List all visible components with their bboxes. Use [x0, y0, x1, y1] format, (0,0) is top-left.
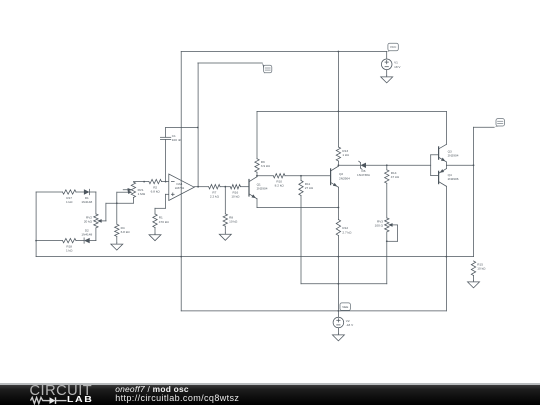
junction node Q2 collector [338, 164, 340, 166]
wire corner to RV2 top [95, 192, 97, 214]
wire RV1 wiper drop [116, 192, 118, 203]
potentiometer RV2 [84, 214, 106, 228]
wire D1 to corner [90, 191, 96, 193]
footer bar [0, 383, 540, 384]
wire junction to R8 [224, 187, 226, 214]
capacitor C1 [160, 134, 181, 142]
wire Q1 emitter drop [256, 199, 258, 208]
ground R15 [468, 280, 480, 288]
wire R14 top [386, 165, 388, 170]
potentiometer RV3 [375, 218, 397, 232]
svg-text:18 V: 18 V [394, 65, 401, 69]
svg-text:47 kΩ: 47 kΩ [391, 175, 400, 179]
resistor R11 [299, 181, 314, 196]
junction node C1 output [197, 127, 199, 129]
wire Q2 emitter drop [337, 187, 339, 219]
svg-text:1N4148: 1N4148 [81, 200, 92, 204]
wire push-pull base bar [430, 155, 432, 176]
wire node to D6 [338, 164, 360, 166]
svg-text:2.2 kΩ: 2.2 kΩ [210, 195, 220, 199]
wire V2 to ground [337, 328, 339, 334]
wire wiper node horizontal [106, 202, 133, 204]
wire op-amp supply vertical [180, 52, 182, 311]
junction node R14 top [386, 164, 388, 166]
junction node R8 tap [224, 186, 226, 188]
wire VCC flag stub [386, 52, 388, 60]
wire R11 down [300, 196, 302, 284]
svg-text:VCC: VCC [390, 45, 397, 49]
wire R14 to RV3 [386, 183, 388, 218]
svg-text:10 kΩ: 10 kΩ [231, 195, 240, 199]
svg-text:10 kΩ: 10 kΩ [229, 220, 238, 224]
wire RV2 bottom to corner [95, 228, 97, 241]
wire C1 bottom lead [165, 140, 167, 182]
resistor R8 [223, 214, 238, 226]
wire RV3 to loop [386, 232, 388, 241]
wire noninverting jog [155, 207, 166, 209]
wire Q4 collector down [445, 186, 447, 311]
wire op-amp output [194, 186, 208, 188]
node flag mid [262, 63, 272, 73]
resistor R13 [336, 147, 349, 161]
junction node left bottom [35, 240, 37, 242]
diode D2 [81, 228, 92, 243]
wire output net vertical [197, 63, 199, 187]
junction node Q1 collector [256, 175, 258, 177]
wire R14 node to bases [387, 164, 431, 166]
wire R11 node to Q2 base [301, 175, 331, 177]
svg-text:8.2 kΩ: 8.2 kΩ [275, 184, 285, 188]
junction node output R15 [473, 164, 475, 166]
resistor R1 [153, 214, 170, 228]
wire R12 down to VEE [337, 236, 339, 311]
diode D1 [81, 189, 92, 204]
wire node A top branch [36, 191, 62, 193]
wire RV1 top to R2 [133, 181, 149, 183]
junction node VEE flag [338, 310, 340, 312]
svg-text:2N2906: 2N2906 [448, 177, 459, 181]
wire output to flag [474, 126, 495, 128]
svg-text:1N4738A: 1N4738A [357, 173, 371, 177]
wire jog to R1 [154, 208, 156, 214]
transistor Q3 [439, 111, 459, 165]
ground R1 [149, 233, 161, 241]
wire op-amp noninverting stub [166, 193, 169, 195]
wire noninverting drop [165, 194, 167, 208]
svg-text:1 kΩ: 1 kΩ [66, 249, 73, 253]
junction node R11 top [300, 175, 302, 177]
wire node to R4 [116, 203, 118, 224]
svg-text:1 kΩ: 1 kΩ [66, 200, 73, 204]
resistor R9 [255, 159, 271, 173]
wire VEE rail mid (rail A) [36, 256, 473, 258]
wire VCC to collector line [257, 110, 446, 112]
wire emitter line [257, 207, 338, 209]
flag VEE [338, 303, 350, 311]
svg-text:1N4148: 1N4148 [81, 232, 92, 236]
svg-text:20 kΩ: 20 kΩ [84, 220, 93, 224]
junction node rail A Q4 [446, 256, 448, 258]
junction node collector line [338, 111, 340, 113]
wire R9 to Q1 collector node [256, 172, 258, 176]
svg-text:470 kΩ: 470 kΩ [159, 220, 170, 224]
svg-text:2N2904: 2N2904 [257, 187, 268, 191]
ground R8 [219, 233, 231, 241]
resistor R10 [273, 174, 285, 188]
wire bottom branch [36, 240, 62, 242]
svg-text:2N2904: 2N2904 [448, 154, 459, 158]
diode D6 [357, 161, 371, 177]
wire RV3 wiper drop [397, 225, 399, 241]
node flag out [494, 119, 504, 128]
junction node supply rail A left [180, 256, 182, 258]
CircuitLab logo [30, 383, 93, 399]
wire R17 to D1 [76, 191, 84, 193]
svg-text:6.8 kΩ: 6.8 kΩ [151, 190, 161, 194]
transistor Q2 [331, 165, 351, 188]
resistor R17 [63, 190, 77, 204]
wire VCC drop to R13 [337, 52, 339, 148]
svg-text:3.9 kΩ: 3.9 kΩ [261, 164, 271, 168]
resistor R14 [385, 170, 400, 184]
wire RV2 wiper [105, 203, 107, 221]
wire output net top [198, 62, 262, 64]
wire VEE rail [181, 310, 446, 312]
wire R8 to ground [224, 226, 226, 233]
junction node RV1 feed [143, 181, 145, 183]
wire R4 to ground [116, 236, 118, 242]
resistor R2 [149, 179, 162, 193]
ground V1 [381, 75, 393, 83]
wire R18 to D2 [76, 240, 84, 242]
wire C1 top lead [165, 128, 167, 138]
flag VCC [387, 43, 399, 51]
voltage source V1 [381, 59, 401, 70]
wire R10 to R11 node [285, 175, 301, 177]
ground V2 [332, 333, 344, 341]
svg-text:2N2904: 2N2904 [339, 176, 350, 180]
wire RV1 wiper horizontal [117, 191, 129, 193]
wire R7 to junction [220, 186, 230, 188]
wire R2 to op-amp inverting input [162, 181, 169, 183]
svg-text:6.8 kΩ: 6.8 kΩ [121, 230, 131, 234]
junction node wiper join [116, 202, 118, 204]
resistor R4 [115, 224, 131, 236]
transistor Q4 [439, 165, 459, 186]
wire output stage emitters to node [446, 164, 473, 166]
wire lower horizontal [301, 283, 387, 285]
junction node lower horizontal [338, 283, 340, 285]
ground R4 [111, 243, 123, 251]
junction node VCC R13 [338, 51, 340, 53]
op-amp OA4 [169, 174, 194, 201]
wire Q1 collector node to R10 [257, 175, 273, 177]
wire D6 to R14 node [366, 164, 387, 166]
svg-text:10 kΩ: 10 kΩ [477, 267, 486, 271]
junction node op-amp output [197, 186, 199, 188]
wire VEE flag stub [337, 311, 339, 317]
svg-text:100 nF: 100 nF [172, 138, 182, 142]
potentiometer RV1 [123, 182, 146, 198]
junction node inverting input [165, 181, 167, 183]
wire RV3 loop bottom [387, 240, 398, 242]
resistor R15 [471, 261, 486, 276]
wire D2 to corner [90, 240, 96, 242]
wire R1 to ground [154, 228, 156, 234]
svg-text:VEE: VEE [342, 305, 348, 309]
resistor R7 [209, 185, 221, 199]
wire base stub top [431, 154, 439, 156]
wire node to R11 [300, 176, 302, 181]
transistor Q1 [249, 176, 268, 200]
svg-text:27 kΩ: 27 kΩ [305, 186, 314, 190]
wire VCC rail [181, 51, 387, 53]
wire RV1 bottom [132, 198, 134, 204]
wire C1 to output net [166, 127, 198, 129]
wire V1 to ground [386, 70, 388, 76]
junction node RV3 loop [386, 240, 388, 242]
wire R16 to Q1 base [241, 186, 250, 188]
wire R15 to ground [473, 276, 475, 281]
resistor R16 [230, 185, 240, 199]
wire R13 to Q2 collector node [337, 161, 339, 165]
svg-text:LM741: LM741 [175, 186, 185, 190]
resistor R12 [336, 220, 352, 236]
wire left rail [35, 192, 37, 257]
junction node rail A R12 [338, 256, 340, 258]
wire RV1 wiper arrowhead [128, 191, 132, 194]
svg-text:-18 V: -18 V [346, 323, 354, 327]
wire base stub bottom [431, 175, 439, 177]
svg-text:1 kΩ: 1 kΩ [342, 153, 349, 157]
wire output node vertical [473, 127, 475, 256]
footer text [115, 384, 189, 394]
junction node emitter join [338, 207, 340, 209]
svg-text:1 MΩ: 1 MΩ [138, 192, 146, 196]
svg-text:2.7 kΩ: 2.7 kΩ [342, 230, 352, 234]
svg-text:100 Ω: 100 Ω [375, 224, 384, 228]
voltage source V2 [333, 317, 354, 328]
wire collector line to R9 [256, 111, 258, 158]
resistor R18 [63, 238, 77, 252]
wire RV3 bottom drop [386, 241, 388, 283]
